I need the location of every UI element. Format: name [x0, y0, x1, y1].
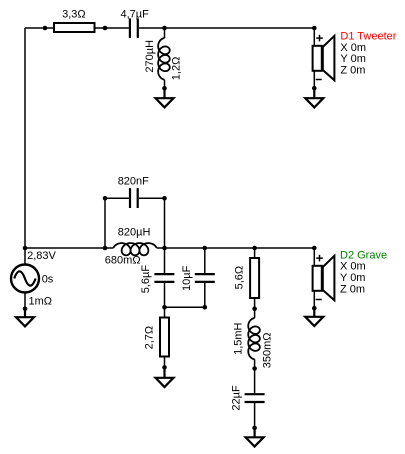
svg-text:10µF: 10µF	[181, 265, 193, 291]
ground G6 (under D2)	[305, 308, 323, 326]
node source bottom	[23, 307, 28, 312]
svg-text:D2 Grave: D2 Grave	[340, 249, 387, 261]
svg-text:5,6Ω: 5,6Ω	[233, 266, 245, 290]
node C4 top	[203, 246, 208, 251]
wire C3 5.6uF top lead	[164, 248, 166, 273]
node tweeter bottom	[312, 86, 317, 91]
wire main rail right segment (L2 coil to D2)	[157, 247, 315, 249]
svg-text:1mΩ: 1mΩ	[29, 296, 53, 308]
inductor L3 1,5mH 350mohm (vertical coil)	[248, 309, 260, 369]
svg-text:Y 0m: Y 0m	[340, 53, 365, 65]
sine wave inside source	[14, 271, 35, 285]
wire D2 bottom lead	[313, 291, 315, 308]
svg-text:350mΩ: 350mΩ	[261, 332, 273, 368]
speaker D2 grave symbol	[313, 256, 335, 300]
svg-text:X 0m: X 0m	[340, 261, 366, 273]
node source top	[23, 246, 28, 251]
ground G5 (under C5)	[246, 428, 264, 447]
node R3 bottom	[162, 365, 167, 370]
svg-text:4,7µF: 4,7µF	[121, 8, 150, 20]
wire D2 top lead	[313, 248, 315, 266]
capacitor C1 4,7uF	[130, 18, 138, 38]
ground G4 (under R3)	[156, 367, 174, 387]
node C1/L1/tweeter wire	[162, 26, 167, 31]
svg-text:3,3Ω: 3,3Ω	[62, 8, 86, 20]
wire stub right of parallel block	[164, 198, 166, 248]
inductor L2 820uH 680mohm (horizontal coil)	[113, 243, 156, 255]
wire tweeter bottom lead	[313, 71, 315, 88]
wire top rail left segment (node IN to C1 left plate)	[25, 27, 129, 29]
svg-text:680mΩ: 680mΩ	[105, 255, 141, 267]
node L1 bottom	[162, 86, 167, 91]
node C4 bottom	[203, 305, 208, 310]
svg-text:1,5mH: 1,5mH	[233, 322, 245, 354]
svg-text:270µH: 270µH	[144, 40, 156, 73]
wire main rail left segment (source node to L2 coil)	[25, 247, 113, 249]
node C2 right	[162, 196, 167, 201]
wire R4 5.6ohm leads	[254, 248, 256, 309]
inductor L1 270uH 1,2ohm (vertical coil)	[158, 28, 170, 88]
node R4/L3	[252, 306, 257, 311]
node D2 top	[312, 246, 317, 251]
resistor R4 5,6ohm	[233, 258, 259, 298]
svg-text:5,6µF: 5,6µF	[140, 265, 152, 294]
svg-text:Y 0m: Y 0m	[340, 272, 365, 284]
svg-text:22µF: 22µF	[230, 385, 242, 411]
wire C3 5.6uF bottom lead	[164, 283, 166, 307]
node C5 bottom	[252, 426, 257, 431]
resistor R1 3,3ohm	[54, 8, 95, 32]
capacitor C5 22uF	[245, 394, 265, 402]
node L3/C5	[252, 366, 257, 371]
node R1 left	[43, 26, 48, 31]
speaker D1 tweeter symbol	[313, 36, 335, 81]
svg-text:1,2Ω: 1,2Ω	[171, 57, 183, 81]
node C3 bottom	[162, 305, 167, 310]
wire link C3/C4 bottoms	[165, 306, 205, 308]
wire source top lead	[24, 248, 26, 264]
capacitor C4 10uF	[195, 274, 215, 282]
node R1/C1	[103, 26, 108, 31]
svg-text:D1 Tweeter: D1 Tweeter	[340, 30, 396, 42]
minus sign D2	[316, 299, 322, 301]
svg-text:2,7Ω: 2,7Ω	[144, 326, 156, 350]
node tweeter top	[312, 26, 317, 31]
plus sign D2	[316, 255, 323, 262]
svg-text:0s: 0s	[42, 274, 54, 286]
node L2 left	[103, 246, 108, 251]
minus sign D1	[316, 79, 322, 81]
ground G2 (under tweeter)	[305, 88, 323, 107]
wire C5 22uF bottom lead	[254, 403, 256, 428]
node L2 right / C3 top	[162, 246, 167, 251]
wire stub left of parallel block	[104, 198, 106, 248]
wire top rail right segment (C1 right plate to tweeter)	[139, 27, 314, 29]
svg-text:Z 0m: Z 0m	[340, 283, 365, 295]
node R4 top	[252, 246, 257, 251]
resistor R3 2,7ohm	[144, 318, 169, 357]
svg-text:2,83V: 2,83V	[27, 250, 56, 262]
ground G1 (under L1)	[156, 88, 174, 107]
wire C4 10uF bottom lead	[204, 283, 206, 307]
wire R3 2.7ohm leads	[164, 307, 166, 367]
wire left vertical rail (source to top rail)	[24, 28, 26, 248]
capacitor C2 820nF	[130, 188, 138, 208]
wire C5 22uF top lead	[254, 369, 256, 394]
capacitor C3 5,6uF	[154, 274, 174, 282]
source V1 sine generator	[11, 265, 39, 293]
plus sign D1	[316, 35, 323, 42]
wire source bottom lead	[24, 293, 26, 309]
node D2 bottom	[312, 306, 317, 311]
svg-text:Z 0m: Z 0m	[340, 64, 365, 76]
wire C4 10uF top lead	[204, 248, 206, 273]
wire 820nF branch left	[105, 197, 129, 199]
wire tweeter top lead	[313, 28, 315, 46]
ground G3 (under source)	[16, 309, 34, 327]
svg-text:820µH: 820µH	[118, 227, 151, 239]
wire 820nF branch right	[139, 197, 165, 199]
svg-text:820nF: 820nF	[118, 175, 149, 187]
node C2 left	[103, 196, 108, 201]
